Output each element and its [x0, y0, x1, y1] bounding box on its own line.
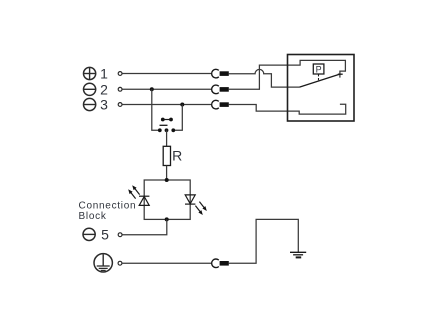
svg-text:1: 1 [100, 66, 108, 82]
jumper link upper pins [161, 118, 173, 122]
jumper bar [160, 124, 168, 126]
connector plug on wire 3 [220, 102, 229, 107]
LED D2 emission arrows [195, 202, 206, 215]
actuator dashed link [318, 74, 320, 81]
connector socket on wire 1 [212, 69, 219, 78]
terminal 3 (-) circle symbol [84, 98, 96, 110]
connector socket on wire 2 [212, 85, 219, 94]
connector plug on wire 1 [220, 71, 229, 76]
pressure switch arm [300, 74, 341, 87]
svg-text:P: P [316, 64, 322, 74]
wire loop bottom to terminal 5 [122, 219, 167, 234]
earth terminal pin open circle [118, 261, 122, 265]
protective earth terminal symbol [94, 254, 112, 272]
sensor housing box [288, 55, 355, 122]
connector plug on earth wire [220, 261, 229, 266]
svg-text:2: 2 [100, 81, 108, 97]
wire 3 left segment [122, 104, 211, 106]
connector plug on wire 2 [220, 87, 229, 92]
LED D2 (right, cathode down) [185, 195, 195, 204]
wire 3 right segment to lower contact hook [228, 104, 345, 114]
jumper block left lead [152, 89, 158, 130]
svg-text:Block: Block [79, 211, 107, 222]
earth wire right segment to ground [228, 219, 298, 263]
jumper block right lead [175, 105, 182, 131]
wire resistor to LED loop [166, 166, 168, 181]
resistor R [163, 146, 170, 165]
node on wire 2 [150, 87, 154, 91]
terminal 2 (-) circle symbol [84, 83, 96, 95]
terminal 5 (-) circle symbol [83, 228, 95, 240]
pressure switch arrow tick [338, 73, 343, 75]
pressure sensor element P [313, 64, 324, 74]
label Connection Block [79, 200, 137, 222]
terminal pin 5 open circle [118, 233, 122, 237]
terminal pin 3 open circle [118, 103, 122, 107]
wire 1 left segment [122, 73, 211, 75]
terminal pin 2 open circle [118, 87, 122, 91]
svg-text:3: 3 [100, 97, 108, 113]
connector socket on wire 3 [212, 100, 219, 109]
node loop bottom [165, 217, 169, 221]
node on wire 3 [180, 103, 184, 107]
terminal pin 1 open circle [118, 72, 122, 76]
terminal 1 (+) circle symbol [84, 67, 96, 79]
wire 2 left segment [122, 88, 211, 90]
connector socket on earth wire [212, 259, 219, 268]
earth wire left segment [122, 262, 211, 264]
LED D1 emission arrows [128, 185, 139, 198]
ground symbol [290, 252, 306, 257]
jumper socket pin C [171, 128, 175, 132]
svg-text:R: R [172, 148, 182, 164]
wire 1 right segment with crossover hop [228, 69, 299, 87]
jumper socket pin B [165, 128, 169, 132]
node loop top [165, 178, 169, 182]
jumper socket pin A [158, 128, 162, 132]
LED loop frame [144, 180, 190, 219]
LED D1 (left, cathode up) [139, 196, 149, 205]
svg-text:5: 5 [101, 227, 109, 243]
wire jumper to resistor [166, 130, 168, 146]
svg-text:Connection: Connection [79, 200, 137, 211]
wire 2 right segment to switch contact hook [228, 60, 345, 89]
